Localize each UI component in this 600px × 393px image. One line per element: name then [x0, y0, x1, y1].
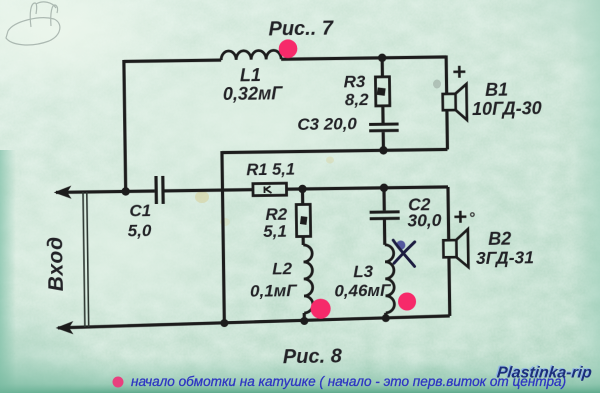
junction node L3 bottom: [382, 314, 390, 322]
svg-text:R1 5,1: R1 5,1: [246, 161, 295, 180]
svg-text:5,1: 5,1: [263, 222, 287, 241]
svg-text:R3: R3: [343, 72, 366, 91]
capacitor C3: [369, 123, 399, 133]
svg-text:С1: С1: [129, 201, 151, 220]
red winding-start dot at L3: [398, 292, 416, 310]
paper stain 1: [195, 191, 209, 203]
wire input line through C1 and R1: [56, 187, 448, 192]
degree mark B2: [471, 213, 475, 217]
junction node R2 top: [298, 185, 307, 194]
svg-text:В2: В2: [488, 229, 511, 249]
junction node C3 bottom: [379, 146, 388, 155]
svg-text:5,0: 5,0: [128, 221, 152, 240]
resistor R2: [296, 204, 310, 236]
junction node L2 bottom: [300, 317, 308, 325]
svg-text:Plastinka-rip: Plastinka-rip: [496, 365, 593, 382]
wire R3-C3 column: [382, 58, 383, 150]
red winding-start dot at L2: [311, 299, 331, 319]
svg-text:Рис. 8: Рис. 8: [283, 345, 343, 368]
svg-text:Рис.. 7: Рис.. 7: [268, 18, 334, 41]
input terminal arrow top: [56, 187, 70, 197]
svg-text:В1: В1: [485, 80, 508, 100]
grey smudge: [433, 80, 441, 89]
loudspeaker B1: [443, 84, 467, 120]
wire top left segment: [124, 60, 221, 61]
loudspeaker B2: [443, 229, 468, 267]
wire C2-L3 column: [384, 188, 386, 319]
wire bottom return: [58, 316, 450, 328]
svg-text:0,46мГ: 0,46мГ: [334, 281, 392, 301]
wire B2 branch vertical: [448, 187, 450, 316]
paper stain 3: [220, 218, 230, 226]
svg-text:0,32мГ: 0,32мГ: [223, 83, 284, 104]
wire top right segment: [281, 57, 446, 59]
inductor L3: [385, 245, 395, 313]
resistor R3: [375, 77, 389, 106]
plus polarity mark B1: [453, 66, 465, 78]
pencil scribble top-left: [6, 2, 60, 45]
resistor R1: [253, 183, 287, 195]
svg-text:L1: L1: [240, 65, 261, 85]
handwritten X mark near L3: [393, 240, 415, 267]
svg-text:30,0: 30,0: [407, 210, 442, 230]
wire shared return (top wire of Рис.8): [222, 149, 447, 152]
wire B1 branch vertical: [446, 55, 447, 149]
svg-text:0,1мГ: 0,1мГ: [250, 281, 298, 301]
red bullet of caption: [113, 377, 124, 388]
junction node R3 top: [378, 54, 387, 63]
wire left shunt vertical: [222, 151, 224, 323]
svg-text:8,2: 8,2: [345, 90, 369, 109]
paper stain 2: [326, 157, 334, 164]
svg-text:L3: L3: [353, 262, 374, 281]
capacitor C1: [154, 176, 164, 204]
junction node input/left vertical: [121, 187, 130, 196]
input terminal arrow bottom: [58, 323, 72, 333]
watermark Plastinka-rip: [495, 364, 593, 382]
inductor L2: [303, 245, 313, 313]
junction node C2 top: [380, 184, 389, 193]
input cable double line: [83, 192, 89, 327]
red winding-start dot at L1: [279, 39, 298, 58]
svg-text:3ГД-31: 3ГД-31: [476, 247, 534, 268]
svg-text:L2: L2: [272, 259, 293, 278]
wire left vertical of Рис.7 loop: [124, 60, 126, 191]
wire R2-L2 column: [302, 189, 304, 321]
svg-text:С3 20,0: С3 20,0: [297, 114, 357, 134]
junction node shunt bottom: [220, 319, 228, 327]
capacitor C2: [370, 210, 400, 220]
plus polarity mark B2: [454, 211, 466, 223]
inductor L1: [221, 50, 281, 60]
svg-text:10ГД-30: 10ГД-30: [472, 98, 542, 119]
svg-text:Вход: Вход: [44, 236, 68, 291]
